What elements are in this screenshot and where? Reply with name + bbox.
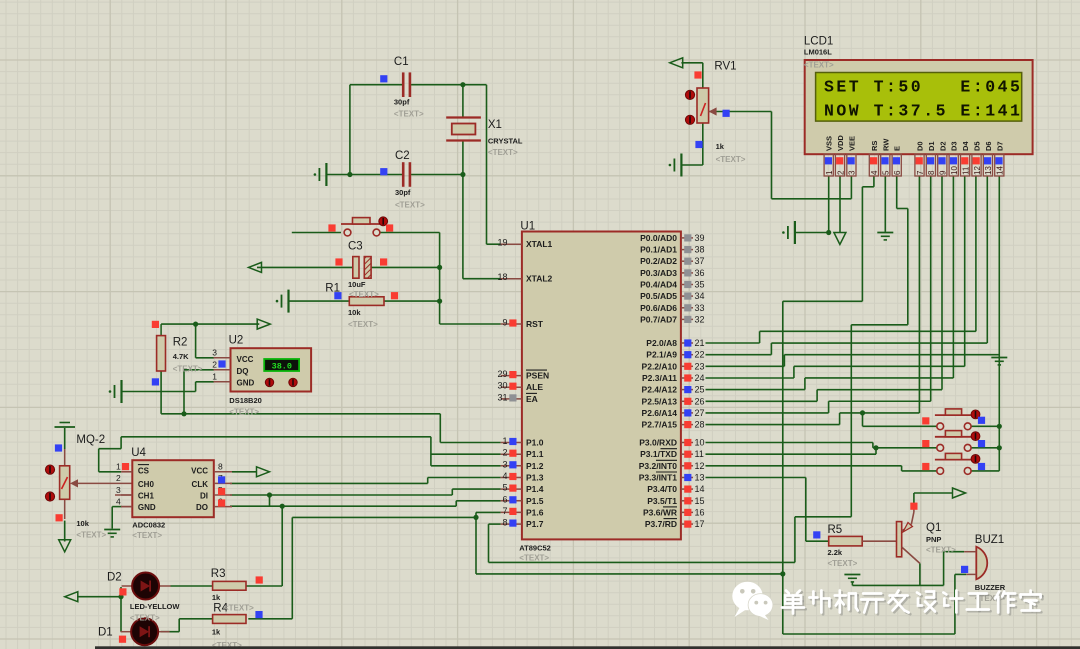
svg-text:27: 27 (695, 408, 705, 418)
svg-text:D2: D2 (938, 141, 947, 151)
svg-text:C1: C1 (394, 56, 409, 68)
svg-text:1: 1 (825, 170, 834, 175)
svg-text:P1.6: P1.6 (526, 507, 544, 517)
svg-text:<TEXT>: <TEXT> (76, 531, 106, 540)
svg-text:P3.4/T0: P3.4/T0 (647, 484, 677, 494)
svg-text:P0.5/AD5: P0.5/AD5 (640, 291, 677, 301)
svg-text:P2.4/A12: P2.4/A12 (642, 385, 678, 395)
svg-text:P0.4/AD4: P0.4/AD4 (640, 280, 677, 290)
svg-text:RST: RST (526, 319, 544, 329)
svg-text:BUZ1: BUZ1 (975, 534, 1004, 546)
svg-text:4: 4 (870, 170, 879, 175)
svg-text:<TEXT>: <TEXT> (349, 290, 379, 299)
svg-text:D4: D4 (961, 141, 970, 151)
svg-text:P0.3/AD3: P0.3/AD3 (640, 268, 677, 278)
svg-text:P3.5/T1: P3.5/T1 (647, 496, 677, 506)
svg-text:2: 2 (836, 170, 845, 175)
svg-text:30: 30 (497, 381, 507, 391)
svg-text:11: 11 (961, 166, 970, 175)
svg-text:35: 35 (695, 280, 705, 290)
svg-text:XTAL2: XTAL2 (526, 274, 553, 284)
svg-text:P2.5/A13: P2.5/A13 (642, 396, 678, 406)
svg-text:GND: GND (237, 379, 255, 388)
svg-text:25: 25 (695, 385, 705, 395)
svg-text:2: 2 (116, 473, 121, 483)
svg-text:VDD: VDD (836, 135, 845, 151)
svg-text:3: 3 (848, 170, 857, 175)
svg-text:10uF: 10uF (348, 280, 366, 289)
svg-text:24: 24 (695, 373, 705, 383)
svg-text:X1: X1 (488, 119, 502, 131)
svg-text:4: 4 (502, 471, 507, 481)
svg-text:U1: U1 (520, 221, 535, 233)
svg-text:ADC0832: ADC0832 (132, 521, 165, 530)
svg-text:3: 3 (502, 459, 507, 469)
svg-text:5: 5 (502, 483, 507, 493)
svg-text:VCC: VCC (237, 355, 254, 364)
svg-text:5: 5 (882, 170, 891, 175)
svg-text:PSEN: PSEN (526, 371, 549, 381)
svg-text:12: 12 (695, 461, 705, 471)
svg-text:D6: D6 (984, 141, 993, 151)
svg-text:<TEXT>: <TEXT> (132, 531, 162, 540)
svg-text:6: 6 (893, 170, 902, 175)
svg-text:1: 1 (116, 462, 121, 472)
svg-text:<TEXT>: <TEXT> (394, 110, 424, 119)
svg-text:P0.6/AD6: P0.6/AD6 (640, 303, 677, 313)
svg-text:P0.2/AD2: P0.2/AD2 (640, 256, 677, 266)
svg-text:CS: CS (138, 466, 150, 475)
svg-text:P0.0/AD0: P0.0/AD0 (640, 233, 677, 243)
svg-text:1k: 1k (212, 628, 221, 637)
svg-text:MQ-2: MQ-2 (76, 434, 105, 446)
svg-text:EA: EA (526, 394, 538, 404)
svg-text:P3.1/TXD: P3.1/TXD (640, 449, 677, 459)
svg-text:1k: 1k (716, 142, 725, 151)
svg-text:P2.6/A14: P2.6/A14 (642, 408, 678, 418)
svg-text:30pf: 30pf (395, 188, 411, 197)
svg-text:P0.1/AD1: P0.1/AD1 (640, 245, 677, 255)
svg-text:RS: RS (870, 141, 879, 151)
svg-text:17: 17 (695, 519, 705, 529)
svg-text:RV1: RV1 (714, 61, 736, 73)
svg-text:13: 13 (695, 473, 705, 483)
svg-text:D3: D3 (950, 141, 959, 151)
svg-text:<TEXT>: <TEXT> (348, 320, 378, 329)
svg-text:8: 8 (927, 170, 936, 175)
svg-text:D2: D2 (107, 572, 122, 584)
svg-text:30pf: 30pf (394, 98, 410, 107)
svg-text:P2.0/A8: P2.0/A8 (646, 338, 677, 348)
svg-text:P3.2/INT0: P3.2/INT0 (639, 461, 678, 471)
svg-text:P2.1/A9: P2.1/A9 (646, 350, 677, 360)
svg-text:P1.7: P1.7 (526, 519, 544, 529)
svg-text:P1.3: P1.3 (526, 473, 544, 483)
svg-text:PNP: PNP (926, 535, 941, 544)
svg-text:15: 15 (695, 496, 705, 506)
svg-text:SET T:50 E:045: SET T:50 E:045 (824, 78, 1022, 97)
svg-text:Q1: Q1 (926, 522, 941, 534)
svg-text:10: 10 (950, 166, 959, 175)
svg-text:4.7K: 4.7K (173, 352, 189, 361)
svg-text:23: 23 (695, 361, 705, 371)
svg-text:18: 18 (497, 272, 507, 282)
svg-text:P1.2: P1.2 (526, 461, 544, 471)
svg-text:CH0: CH0 (138, 480, 155, 489)
svg-text:P2.7/A15: P2.7/A15 (642, 420, 678, 430)
svg-text:VCC: VCC (191, 466, 208, 475)
svg-text:P2.3/A11: P2.3/A11 (642, 373, 677, 383)
svg-text:P0.7/AD7: P0.7/AD7 (640, 314, 677, 324)
svg-text:P1.0: P1.0 (526, 438, 544, 448)
svg-text:1k: 1k (212, 593, 221, 602)
svg-text:<TEXT>: <TEXT> (395, 201, 425, 210)
svg-text:CLK: CLK (192, 480, 209, 489)
svg-text:22: 22 (695, 350, 705, 360)
svg-text:31: 31 (497, 392, 507, 402)
svg-text:2.2k: 2.2k (828, 548, 843, 557)
svg-text:38: 38 (695, 245, 705, 255)
svg-text:NOW T:37.5 E:141: NOW T:37.5 E:141 (824, 102, 1022, 121)
svg-text:P2.2/A10: P2.2/A10 (642, 361, 678, 371)
svg-text:R3: R3 (211, 568, 226, 580)
svg-text:LCD1: LCD1 (804, 36, 833, 48)
svg-text:D5: D5 (973, 141, 982, 151)
svg-text:VEE: VEE (847, 136, 856, 151)
svg-text:DQ: DQ (237, 367, 249, 376)
svg-text:19: 19 (497, 238, 507, 248)
svg-text:C3: C3 (348, 241, 363, 253)
svg-text:2: 2 (212, 359, 217, 369)
svg-text:<TEXT>: <TEXT> (488, 148, 518, 157)
svg-text:R2: R2 (173, 337, 188, 349)
svg-text:10: 10 (695, 438, 705, 448)
svg-text:21: 21 (695, 338, 705, 348)
svg-text:12: 12 (973, 166, 982, 175)
svg-text:16: 16 (695, 507, 705, 517)
svg-text:3: 3 (116, 485, 121, 495)
svg-text:<TEXT>: <TEXT> (173, 365, 203, 374)
svg-text:9: 9 (502, 318, 507, 328)
svg-text:11: 11 (695, 449, 704, 459)
svg-text:P3.0/RXD: P3.0/RXD (639, 438, 677, 448)
svg-text:10k: 10k (76, 519, 89, 528)
svg-text:AT89C52: AT89C52 (519, 544, 551, 553)
svg-text:13: 13 (984, 166, 993, 175)
svg-text:C2: C2 (395, 150, 410, 162)
svg-text:2: 2 (502, 448, 507, 458)
svg-text:14: 14 (996, 166, 1005, 175)
svg-text:9: 9 (939, 170, 948, 175)
svg-text:U2: U2 (229, 335, 244, 347)
svg-text:8: 8 (218, 462, 223, 472)
svg-text:P3.6/WR: P3.6/WR (643, 507, 677, 517)
svg-text:8: 8 (502, 518, 507, 528)
svg-text:29: 29 (497, 369, 507, 379)
svg-text:<TEXT>: <TEXT> (716, 155, 746, 164)
svg-text:38.0: 38.0 (272, 362, 292, 372)
svg-text:DO: DO (196, 503, 208, 512)
svg-text:D1: D1 (98, 627, 113, 639)
svg-text:P3.7/RD: P3.7/RD (645, 519, 677, 529)
svg-text:<TEXT>: <TEXT> (519, 554, 549, 563)
svg-text:10k: 10k (348, 308, 361, 317)
svg-text:DS18B20: DS18B20 (229, 396, 262, 405)
svg-text:D1: D1 (927, 141, 936, 151)
svg-text:XTAL1: XTAL1 (526, 239, 553, 249)
svg-text:BUZZER: BUZZER (975, 583, 1006, 592)
svg-text:36: 36 (695, 268, 705, 278)
svg-text:33: 33 (695, 303, 705, 313)
svg-text:<TEXT>: <TEXT> (804, 61, 834, 70)
svg-text:4: 4 (116, 496, 121, 506)
svg-text:<TEXT>: <TEXT> (828, 559, 858, 568)
svg-text:LED-YELLOW: LED-YELLOW (130, 602, 180, 611)
svg-text:34: 34 (695, 291, 705, 301)
svg-text:37: 37 (695, 256, 705, 266)
svg-text:LM016L: LM016L (804, 48, 832, 57)
svg-text:RW: RW (881, 138, 890, 151)
svg-text:14: 14 (695, 484, 705, 494)
svg-text:28: 28 (695, 420, 705, 430)
svg-text:CRYSTAL: CRYSTAL (488, 137, 523, 146)
svg-text:1: 1 (502, 436, 507, 446)
svg-text:P1.4: P1.4 (526, 484, 544, 494)
svg-text:R5: R5 (828, 524, 843, 536)
svg-text:6: 6 (502, 494, 507, 504)
svg-text:U4: U4 (131, 447, 146, 459)
svg-text:<TEXT>: <TEXT> (926, 546, 956, 555)
svg-text:VSS: VSS (825, 136, 834, 151)
svg-text:P3.3/INT1: P3.3/INT1 (639, 473, 678, 483)
svg-text:CH1: CH1 (138, 492, 155, 501)
svg-text:<TEXT>: <TEXT> (229, 408, 259, 417)
svg-text:39: 39 (695, 233, 705, 243)
svg-text:R1: R1 (325, 283, 340, 295)
svg-text:ALE: ALE (526, 382, 543, 392)
svg-text:3: 3 (212, 347, 217, 357)
svg-text:D0: D0 (916, 141, 925, 151)
svg-text:<TEXT>: <TEXT> (130, 614, 160, 623)
svg-text:7: 7 (916, 170, 925, 175)
svg-text:7: 7 (502, 506, 507, 516)
svg-text:GND: GND (138, 503, 156, 512)
svg-text:32: 32 (695, 314, 705, 324)
svg-text:P1.1: P1.1 (526, 449, 544, 459)
svg-text:E: E (893, 146, 902, 151)
svg-text:<TEXT>: <TEXT> (224, 604, 254, 613)
svg-text:DI: DI (200, 492, 208, 501)
svg-text:26: 26 (695, 396, 705, 406)
svg-text:P1.5: P1.5 (526, 496, 544, 506)
svg-text:1: 1 (212, 371, 217, 381)
svg-text:D7: D7 (995, 141, 1004, 151)
